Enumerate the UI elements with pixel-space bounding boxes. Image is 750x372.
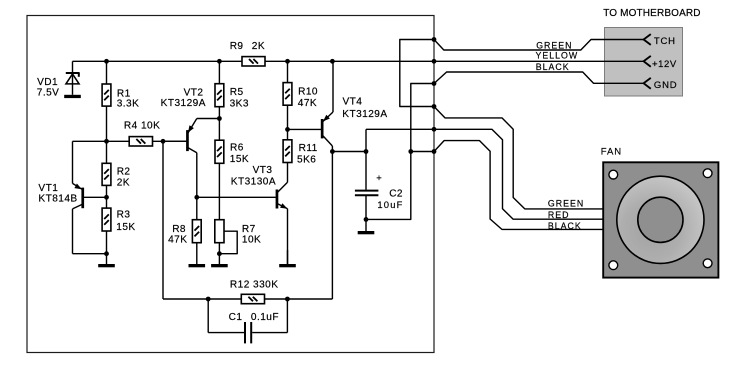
svg-text:R9: R9 xyxy=(230,41,244,52)
svg-text:RED: RED xyxy=(548,210,570,220)
svg-text:10K: 10K xyxy=(242,234,261,245)
svg-text:GREEN: GREEN xyxy=(536,41,572,51)
svg-text:KT3129A: KT3129A xyxy=(342,109,387,120)
svg-text:VD1: VD1 xyxy=(37,77,58,88)
svg-text:0.1uF: 0.1uF xyxy=(251,312,279,323)
svg-text:KT814B: KT814B xyxy=(38,193,77,204)
svg-text:BLACK: BLACK xyxy=(548,221,582,231)
svg-text:R12 330K: R12 330K xyxy=(230,280,279,291)
svg-text:R10: R10 xyxy=(298,87,318,98)
svg-text:YELLOW: YELLOW xyxy=(536,51,579,61)
svg-text:47K: 47K xyxy=(168,234,187,245)
svg-text:R5: R5 xyxy=(230,87,244,98)
svg-text:KT3129A: KT3129A xyxy=(161,98,206,109)
svg-text:15K: 15K xyxy=(230,154,249,165)
svg-text:47K: 47K xyxy=(298,98,317,109)
svg-text:15K: 15K xyxy=(116,222,135,233)
svg-text:GND: GND xyxy=(654,80,678,91)
svg-text:KT3130A: KT3130A xyxy=(231,177,276,188)
svg-text:R4 10K: R4 10K xyxy=(124,120,160,131)
svg-text:R3: R3 xyxy=(117,209,131,220)
svg-text:TCH: TCH xyxy=(654,36,676,47)
svg-text:VT4: VT4 xyxy=(343,97,363,108)
svg-text:R2: R2 xyxy=(117,167,131,178)
svg-text:BLACK: BLACK xyxy=(536,62,570,72)
svg-text:2K: 2K xyxy=(117,178,130,189)
svg-text:R6: R6 xyxy=(230,142,244,153)
svg-text:TO MOTHERBOARD: TO MOTHERBOARD xyxy=(603,8,700,19)
svg-text:10uF: 10uF xyxy=(377,199,403,210)
svg-text:VT3: VT3 xyxy=(253,165,273,176)
svg-text:+12V: +12V xyxy=(652,59,677,70)
svg-text:+: + xyxy=(376,173,382,184)
svg-text:7.5V: 7.5V xyxy=(37,88,60,99)
svg-text:2K: 2K xyxy=(252,41,265,52)
svg-text:3.3K: 3.3K xyxy=(117,98,140,109)
svg-text:R11: R11 xyxy=(299,143,318,154)
svg-text:5K6: 5K6 xyxy=(297,154,316,165)
svg-text:C1: C1 xyxy=(229,312,243,323)
svg-text:FAN: FAN xyxy=(601,146,622,157)
svg-text:C2: C2 xyxy=(389,188,403,199)
svg-text:3K3: 3K3 xyxy=(230,98,249,109)
svg-text:GREEN: GREEN xyxy=(548,199,584,209)
